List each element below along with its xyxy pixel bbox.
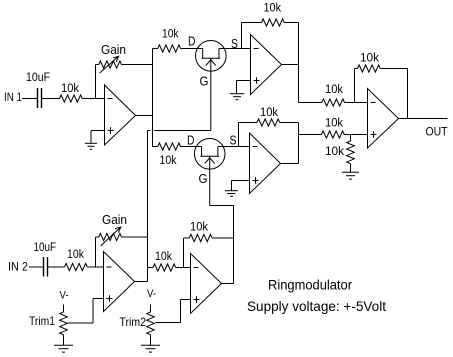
label Trim2 (120, 315, 147, 329)
ground below Trim2 (141, 345, 160, 352)
wire U3 output (281, 163, 299, 165)
wire carrier node to R11 (148, 267, 154, 269)
resistor R9 10k to Q2 drain (153, 143, 181, 167)
wire ground to U3 non-inverting input (232, 181, 250, 191)
svg-text:10k: 10k (260, 107, 278, 119)
svg-text:Gain: Gain (101, 43, 126, 57)
title Ringmodulator (268, 277, 352, 292)
svg-text:V-: V- (60, 290, 69, 302)
wire U6 feedback left vertical (183, 238, 185, 268)
resistor R12 10k U6 feedback (184, 222, 234, 242)
wire R2 to Q1 D (181, 48, 203, 50)
resistor R1 10k (60, 83, 83, 102)
wire ground to U1 non-inverting input (91, 131, 105, 144)
wire Q2 gate to U6 output node (210, 205, 234, 207)
wire U2 out to R4 (299, 102, 322, 104)
wire ground to U2 non-inverting input (237, 81, 251, 94)
svg-text:10uF: 10uF (26, 72, 50, 84)
trimmer P3 Trim1 (60, 305, 68, 346)
wire Trim2 wiper to U6 non-inverting input (156, 300, 191, 323)
wire R4 to U5 (345, 102, 368, 104)
svg-text:V-: V- (147, 288, 156, 300)
wire R11 to U6 inverting input (176, 267, 191, 269)
svg-text:10k: 10k (360, 53, 379, 65)
node OUT label (426, 127, 448, 139)
svg-text:OUT: OUT (426, 127, 448, 139)
resistor R10 10k (65, 249, 88, 271)
node B vertical wire U1 output bus (152, 49, 154, 147)
svg-text:D: D (187, 133, 195, 148)
svg-text:S: S (230, 133, 237, 148)
pin label D of Q2 (187, 133, 195, 148)
svg-text:10k: 10k (325, 118, 343, 130)
pin label S of Q1 (231, 36, 238, 51)
svg-text:Gain: Gain (102, 213, 127, 227)
svg-text:G: G (200, 74, 209, 89)
svg-text:10k: 10k (67, 249, 84, 261)
ground below Trim1 (54, 345, 73, 352)
wire Q2 gate down (209, 156, 211, 205)
wire P1 to node B (122, 64, 153, 66)
capacitor C2 10uF (34, 242, 57, 277)
resistor R3 10k U2 feedback (242, 3, 299, 27)
svg-text:IN 2: IN 2 (8, 262, 28, 274)
op-amp U3 (250, 133, 281, 194)
node IN 1 label (4, 92, 22, 104)
op-amp U4 (104, 252, 135, 312)
svg-text:Supply voltage: +-5Volt: Supply voltage: +-5Volt (247, 298, 386, 314)
svg-text:IN 1: IN 1 (4, 92, 22, 104)
wire U2 output (282, 64, 299, 66)
resistor R11 10k to U6 (153, 251, 176, 271)
wire C2 to R10 (48, 266, 65, 268)
wire node D to R6 (299, 134, 322, 136)
label Trim1 (29, 314, 55, 328)
op-amp U5 (368, 89, 399, 149)
node A junction to Gain pot P1 (95, 65, 97, 99)
wire U5 feedback left vertical (354, 69, 356, 103)
wire U2 feedback left vertical (241, 23, 243, 49)
ground below U1 (85, 143, 97, 149)
svg-text:D: D (188, 34, 196, 49)
svg-text:Ringmodulator: Ringmodulator (268, 277, 352, 292)
svg-text:Trim1: Trim1 (29, 314, 55, 328)
svg-text:10k: 10k (325, 84, 343, 96)
ground below U2 (230, 94, 245, 100)
node IN 2 label (8, 262, 28, 274)
wire R9 to Q2 D (181, 146, 202, 148)
resistor R4 10k to U5 inverting input (322, 84, 345, 106)
svg-text:10uF: 10uF (34, 242, 57, 254)
wire U5 feedback right vertical (407, 69, 409, 119)
P1 wiper arrow (100, 56, 119, 73)
op-amp U6 (191, 254, 222, 314)
label V- of Trim2 (147, 288, 156, 300)
ground below U3 (225, 191, 238, 197)
resistor R2 10k to Q1 drain (153, 29, 181, 53)
wire R10 to U4 inverting input (87, 266, 103, 268)
resistor R5 10k U5 feedback (355, 53, 408, 73)
wire U3 feedback right vertical (298, 123, 300, 164)
wire U6 output (222, 283, 234, 285)
capacitor C1 10uF (26, 72, 50, 108)
ground below R7 (342, 172, 359, 179)
wire Q1 gate down (210, 58, 212, 130)
pin label S of Q2 (230, 133, 237, 148)
wire Q1 gate to carrier bus (hops over node B) (148, 130, 211, 132)
svg-text:10k: 10k (61, 83, 79, 95)
resistor R7 10k to ground (325, 135, 354, 173)
P2 wiper arrow (101, 227, 121, 246)
node C carrier bus vertical wire (147, 131, 149, 282)
transistor Q1 JFET (196, 41, 227, 72)
svg-text:10k: 10k (155, 251, 172, 263)
svg-text:10k: 10k (160, 155, 177, 167)
transistor Q2 JFET (194, 139, 225, 170)
svg-text:10k: 10k (162, 29, 179, 41)
resistor R6 10k to U5 non-inverting input (322, 118, 345, 139)
resistor R8 10k U3 feedback (239, 107, 299, 126)
svg-text:10k: 10k (264, 3, 282, 15)
potentiometer P1 Gain (96, 43, 127, 68)
wire R1 to U1 inverting input (82, 98, 104, 100)
op-amp U1 (105, 85, 136, 145)
wire U3 feedback left vertical (238, 123, 240, 147)
node D branch to R6 row (298, 134, 300, 136)
wire Q1 S to U2 inverting input (219, 48, 251, 50)
pin label G of Q2 (199, 171, 208, 186)
svg-text:10k: 10k (190, 222, 208, 234)
node E junction to Gain pot P2 (95, 237, 97, 267)
potentiometer P2 Gain (96, 213, 128, 241)
wire IN1 to C1 (22, 98, 37, 100)
wire U2 feedback right vertical (298, 23, 300, 103)
wire P2 to carrier bus (122, 236, 148, 238)
wire IN2 to C2 (29, 266, 43, 268)
wire R6 to U5 plus input (344, 134, 367, 136)
wire U1 output (136, 115, 153, 117)
svg-text:Trim2: Trim2 (120, 315, 147, 329)
wire U5 output to OUT (399, 118, 448, 120)
op-amp U2 (251, 35, 282, 95)
svg-text:10k: 10k (325, 146, 344, 158)
label V- of Trim1 (60, 290, 69, 302)
wire C1 to R1 (42, 98, 60, 100)
pin label G of Q1 (200, 74, 209, 89)
wire U4 output to carrier bus (135, 281, 148, 283)
svg-text:G: G (199, 171, 208, 186)
trimmer P4 Trim2 (147, 305, 155, 346)
wire U6 output bus vertical (233, 206, 235, 284)
pin label D of Q1 (188, 34, 196, 49)
subtitle Supply voltage (247, 298, 386, 314)
wire Q2 S to U3 inverting input (218, 146, 250, 148)
wire Trim1 wiper to U4 non-inverting input (68, 299, 104, 324)
